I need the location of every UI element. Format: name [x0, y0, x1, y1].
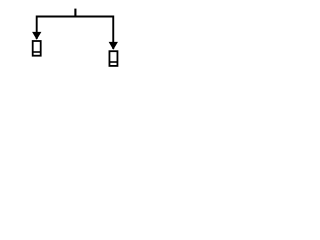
current arrow into left load: [32, 32, 41, 40]
load box Z1 (left): [33, 41, 41, 56]
load box Z2 (right): [109, 51, 117, 66]
inner bar of left load box: [33, 51, 41, 53]
inner bar of right load box: [109, 61, 117, 63]
wire : center stub on top bus: [74, 9, 76, 18]
wire : top bus with left and right branch drops: [37, 17, 114, 50]
current arrow into right load: [109, 42, 118, 50]
